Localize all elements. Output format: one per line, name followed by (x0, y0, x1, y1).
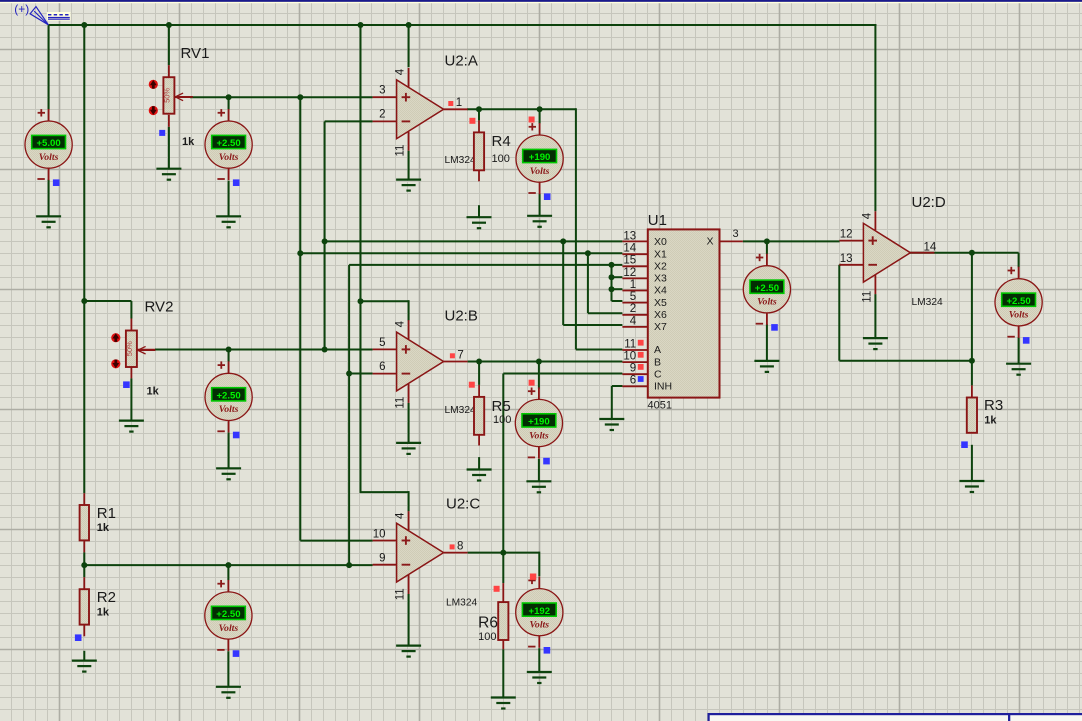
svg-text:6: 6 (630, 375, 636, 387)
svg-text:R1: R1 (97, 505, 116, 522)
wire R4 bottom ground stem (478, 169, 480, 217)
red square VM7 (530, 574, 536, 580)
svg-text:50%: 50% (125, 341, 134, 356)
U1 pin name labels inside (654, 236, 714, 393)
U2:C power pin stubs (4, 11) (408, 511, 410, 594)
voltmeter VM1 reading +5.00 (25, 109, 72, 186)
svg-text:+2.50: +2.50 (755, 283, 779, 294)
svg-text:100: 100 (492, 153, 510, 165)
svg-text:INH: INH (654, 381, 672, 393)
U2:A input pin stubs (373, 97, 397, 121)
svg-text:100: 100 (493, 414, 511, 426)
ground under VM3 (527, 216, 552, 227)
node junctions on divider node (81, 562, 352, 568)
svg-text:1k: 1k (97, 607, 110, 619)
svg-text:5: 5 (630, 291, 636, 303)
wire R6 bottom to ground (502, 637, 504, 697)
node junctions on RV1 wiper net (226, 94, 304, 256)
node junction dots on +5V rail (81, 22, 411, 28)
svg-text:B: B (654, 356, 661, 368)
svg-text:X2: X2 (654, 261, 667, 273)
RV2 wiper arrow (138, 346, 156, 354)
wire VM7 drop from output corner (538, 552, 540, 577)
RV2 decrement arrow button (111, 359, 120, 368)
voltmeter VM3 reading +190 (516, 123, 563, 200)
U2:B output pin stub (444, 361, 468, 363)
svg-text:3: 3 (733, 228, 739, 240)
wire 2.5V reference to X2 line (349, 264, 622, 266)
wire RV2 bottom to ground (130, 366, 132, 420)
svg-text:X4: X4 (654, 285, 667, 297)
svg-text:Volts: Volts (219, 152, 239, 163)
pin 8 red square U2:C (450, 544, 455, 549)
wire RV2 top connection (83, 301, 131, 319)
svg-text:Volts: Volts (529, 430, 549, 441)
wire U1 X output to U2:D pin12 (743, 240, 840, 242)
blue square R3 (961, 441, 968, 448)
ground under RV1 (156, 169, 181, 180)
wire U2:B pin11 to ground (408, 403, 410, 443)
voltmeter VM6 reading +2.50 (205, 580, 252, 657)
node U2:B pin4 branch junction (358, 298, 364, 304)
svg-text:14: 14 (924, 242, 937, 254)
RV2 increment arrow button (111, 333, 120, 342)
wire RV2 wiper net to U2:B pin5 (137, 349, 373, 351)
voltmeter VM5 reading +2.50 (205, 361, 252, 438)
red square R4 (469, 118, 475, 124)
svg-text:9: 9 (379, 553, 385, 565)
ground under VM9 (1006, 364, 1031, 375)
svg-text:11: 11 (395, 588, 407, 600)
wire R3 tap down (971, 361, 973, 398)
svg-text:Volts: Volts (219, 404, 239, 415)
voltmeter VM9 reading +2.50 (995, 267, 1042, 344)
wire 2.5V divider node line R1-R2 to U2:C pin9 (84, 564, 372, 566)
svg-text:11: 11 (395, 397, 407, 409)
svg-text:U2:B: U2:B (445, 308, 478, 325)
svg-text:50%: 50% (163, 88, 172, 103)
svg-text:+5.00: +5.00 (36, 138, 60, 149)
red square VM4 (529, 380, 535, 386)
red square VM3 (529, 117, 535, 123)
ground under VM5 (216, 468, 241, 479)
node junction U2:B pin6 (346, 371, 352, 377)
ground under VM4 (526, 481, 551, 492)
wire VM2 to ground (228, 181, 230, 217)
svg-text:1: 1 (456, 97, 462, 109)
wire R3 bottom to ground (971, 445, 973, 481)
svg-text:7: 7 (457, 349, 463, 361)
resistor R5 body (474, 397, 484, 435)
svg-text:LM324: LM324 (912, 297, 943, 308)
voltmeter VM8 reading +2.50 (743, 254, 790, 331)
node junction RV2 feed (81, 298, 87, 304)
wire U2:A pin11 to ground (408, 151, 410, 180)
svg-text:4: 4 (395, 68, 407, 75)
wire R4 tap from output node (478, 109, 480, 132)
U2:D output pin stub (910, 252, 934, 254)
svg-text:12: 12 (623, 267, 636, 279)
wire U2:A output down to U1 pin A (576, 108, 623, 349)
svg-text:X5: X5 (654, 297, 667, 309)
svg-text:1: 1 (630, 279, 636, 291)
svg-text:Volts: Volts (530, 166, 550, 177)
resistor R6 body (498, 602, 508, 640)
node junctions U2:D output net (969, 250, 975, 364)
bottom right popup window frames (709, 714, 1082, 721)
svg-text:+2.50: +2.50 (216, 609, 240, 620)
ground U2:B pin11 (396, 443, 421, 454)
wire VM7 to ground (538, 648, 540, 672)
U2:A power pin stubs (4, 11) (408, 68, 410, 151)
voltmeter VM7 reading +192 (516, 577, 563, 654)
svg-text:4051: 4051 (648, 400, 672, 412)
svg-text:R5: R5 (492, 398, 511, 415)
wire +5V rail to VM1 (48, 25, 50, 110)
wire RV1 wiper net to U2:A pin3 (174, 96, 372, 98)
wire U2:B output node to U1 pin B (468, 361, 623, 363)
svg-text:+2.50: +2.50 (1006, 296, 1030, 307)
svg-text:RV1: RV1 (181, 45, 210, 62)
wire rail drop x=84 to R1 and RV2 node (83, 25, 85, 493)
ground under R5 (467, 470, 492, 481)
pin number labels U2:C (373, 512, 464, 600)
U1 X output pin stub (720, 240, 743, 242)
svg-text:U2:A: U2:A (445, 53, 478, 70)
svg-text:X7: X7 (654, 321, 667, 333)
U2:D power pin stubs (4, 11) (874, 211, 876, 294)
svg-text:X: X (706, 236, 713, 248)
RV1 decrement arrow button (149, 106, 158, 115)
svg-text:U2:D: U2:D (912, 194, 946, 211)
wire VM8 to ground (766, 324, 768, 361)
svg-text:+190: +190 (528, 417, 550, 428)
svg-text:X0: X0 (654, 236, 667, 248)
voltmeter VM4 reading +190 (515, 387, 562, 464)
red square R5 (469, 382, 475, 388)
svg-text:2: 2 (630, 303, 636, 315)
wire VM1 to ground (48, 180, 50, 217)
ground under VM2 (216, 216, 241, 227)
ground under RV2 (119, 421, 144, 432)
ground U2:C pin11 (396, 646, 421, 657)
pin 7 red square U2:B (450, 353, 455, 358)
svg-text:1k: 1k (984, 415, 997, 427)
svg-text:Volts: Volts (757, 297, 777, 308)
hidden-text blue square RV2 (123, 381, 130, 388)
wire supply branch to U2:C pin4 (408, 491, 410, 511)
ground U2:D pin11 (863, 338, 888, 349)
U2:C output pin stub (444, 552, 468, 554)
ground under R4 (467, 217, 492, 228)
svg-text:12: 12 (840, 229, 853, 241)
wire R5 tap (478, 362, 480, 397)
op-amp U2:A triangle (397, 80, 444, 139)
svg-text:1k: 1k (97, 522, 110, 534)
op-amp U2:D triangle (863, 223, 910, 282)
svg-text:RV2: RV2 (145, 299, 174, 316)
svg-text:LM324: LM324 (446, 597, 477, 608)
svg-text:A: A (654, 344, 661, 356)
wire U2:A output node y=108 (467, 108, 576, 110)
wire U2:B pin6 vertical 2.5V net (349, 265, 373, 565)
node junctions on X0 net (322, 238, 567, 352)
wire U2:C output down to R6 (502, 553, 504, 603)
svg-text:Volts: Volts (39, 152, 59, 163)
svg-text:14: 14 (623, 243, 636, 255)
wire +5V top rail (49, 24, 877, 211)
svg-text:U1: U1 (648, 212, 667, 229)
wire VM4 to ground (538, 459, 540, 481)
U1 select pin marker squares (638, 340, 644, 382)
ground U2:A pin11 (396, 180, 421, 191)
resistor R3 body (967, 398, 977, 433)
wire RV1 wiper drop to VM2 (228, 97, 230, 109)
svg-text:4: 4 (395, 512, 407, 519)
svg-text:LM324: LM324 (445, 405, 476, 416)
svg-text:4: 4 (395, 320, 407, 327)
svg-text:4: 4 (630, 315, 637, 327)
svg-text:X6: X6 (654, 309, 667, 321)
ground under R2 (72, 661, 97, 672)
U2:C input pin stubs (373, 541, 397, 565)
wire autoroute dashed indicator (47, 12, 71, 21)
svg-text:8: 8 (457, 541, 463, 553)
svg-text:+190: +190 (529, 152, 551, 163)
resistor R2 body (80, 589, 89, 624)
U2:B power pin stubs (4, 11) (408, 320, 410, 403)
wire INH to ground stem (612, 386, 623, 419)
voltmeter VM2 reading +2.50 (205, 109, 252, 186)
pin number labels U2:A (379, 68, 462, 156)
wire RV1 wiper vertical x=300 to U2:C pin10 (300, 97, 372, 540)
svg-text:15: 15 (623, 255, 636, 267)
wire VM3 to ground (539, 194, 541, 216)
RV1 increment arrow button (149, 80, 158, 89)
wire X1 feed from RV1 net (299, 252, 622, 254)
hidden-text blue square RV1 (159, 130, 165, 136)
red square R6 (494, 586, 500, 592)
svg-text:Volts: Volts (1009, 310, 1029, 321)
multiplexer U1 4051 body (648, 229, 720, 397)
svg-text:+2.50: +2.50 (216, 138, 240, 149)
wire VM8 drop (766, 241, 768, 254)
svg-text:10: 10 (373, 528, 386, 540)
wire U2:C output node (468, 552, 540, 554)
node junction X output (764, 238, 770, 244)
svg-text:5: 5 (379, 337, 385, 349)
node junction U2:C output (500, 550, 506, 556)
svg-text:11: 11 (861, 291, 873, 303)
pin number labels U2:D (840, 212, 937, 302)
wire rail drop x=360 opamp supply (360, 25, 409, 492)
wire R2 bottom ground stem (83, 624, 85, 660)
wire X0 branch down to X7 (563, 241, 622, 325)
svg-text:R6: R6 (478, 615, 498, 632)
wire supply branch to U2:B pin4 (408, 300, 410, 320)
potentiometer RV2 body (125, 331, 137, 368)
pin number labels U2:B (379, 320, 464, 408)
svg-text:Volts: Volts (219, 623, 239, 634)
svg-text:Volts: Volts (529, 620, 549, 631)
svg-text:U2:C: U2:C (446, 496, 480, 513)
node junctions on U2:B output node (476, 359, 542, 365)
svg-text:10: 10 (623, 351, 636, 363)
op-amp U2:C triangle (397, 523, 444, 582)
svg-text:X3: X3 (654, 273, 667, 285)
svg-text:9: 9 (630, 363, 636, 375)
wire placement cursor icon (30, 7, 48, 25)
blue square R2 (75, 634, 82, 641)
wire divider drop to VM6 (227, 565, 229, 580)
wire U2:D pin11 to ground (874, 294, 876, 338)
svg-text:100: 100 (478, 631, 496, 643)
node junctions on U2:A output node (476, 106, 543, 112)
svg-text:3: 3 (379, 85, 385, 97)
wire VM3 tap from output node (539, 109, 541, 123)
U2:B input pin stubs (373, 349, 397, 373)
svg-text:R4: R4 (492, 133, 511, 150)
potentiometer RV1 body (163, 77, 175, 114)
top window title bar strip (0, 0, 1082, 2)
svg-text:11: 11 (624, 338, 636, 350)
wire X0 line to U1 (325, 240, 623, 242)
wire U2:C output up to U1 pin C (503, 374, 622, 553)
svg-text:11: 11 (395, 145, 407, 157)
RV1 wiper arrow (175, 93, 193, 101)
svg-text:13: 13 (840, 253, 853, 265)
wire U2:D output node (887, 253, 1018, 268)
node junctions on RV2 wiper net (226, 347, 232, 353)
svg-text:2: 2 (379, 109, 385, 121)
wire RV2 wiper drop to VM5 (228, 350, 230, 362)
pin 1 red square U2:A (448, 101, 453, 106)
ground under VM8 (754, 361, 779, 372)
wire VM6 to ground (227, 651, 229, 687)
U1 left pin stubs (622, 241, 647, 386)
svg-text:+2.50: +2.50 (216, 391, 240, 402)
node junction X1 branch (585, 250, 591, 256)
svg-text:(+): (+) (14, 2, 29, 16)
svg-text:X1: X1 (654, 248, 667, 260)
potentiometer RV2 (130, 319, 132, 331)
U2:D input pin stubs (839, 241, 863, 265)
node junctions X2 chain (609, 262, 615, 292)
wire U2:A pin2 feedback net (325, 121, 373, 349)
wire VM9 to ground (1018, 337, 1020, 363)
wire R5 bottom ground stem (478, 434, 480, 470)
op-amp U2:B triangle (397, 332, 444, 391)
svg-text:1k: 1k (147, 386, 160, 398)
ground under R3 (959, 481, 984, 492)
ground under VM7 (527, 672, 552, 683)
ground under R6 (491, 698, 516, 709)
wire X2 branch chain to X3 X4 X5 (612, 265, 623, 301)
ground under VM1 (36, 216, 61, 227)
potentiometer RV1 (168, 65, 170, 77)
wire VM5 to ground (228, 433, 230, 469)
svg-text:LM324: LM324 (445, 155, 476, 166)
wire rail to RV1 top (168, 25, 170, 65)
svg-text:1k: 1k (182, 136, 195, 148)
svg-text:6: 6 (379, 361, 385, 373)
resistor R1 body (80, 505, 89, 540)
wire RV1 bottom to ground (168, 115, 170, 169)
wire U2:D feedback loop to pin13 (839, 253, 972, 361)
ground INH (599, 419, 624, 430)
resistor R4 body (474, 132, 484, 170)
svg-text:13: 13 (623, 230, 636, 242)
wire X1 branch down to X6 (588, 253, 623, 313)
wire VM4 tap (538, 362, 540, 389)
U2:A output pin stub (444, 108, 468, 110)
svg-text:C: C (654, 368, 662, 380)
wire rail to U2:A pin4 (408, 25, 410, 67)
svg-text:R3: R3 (984, 397, 1003, 414)
svg-text:4: 4 (861, 212, 873, 219)
wire R1 pin stubs and middle link (83, 493, 85, 589)
ground under VM6 (216, 687, 241, 698)
U1 pin number labels (623, 228, 738, 387)
svg-text:+192: +192 (528, 606, 550, 617)
wire U2:C pin11 to ground (408, 594, 410, 646)
svg-text:R2: R2 (97, 589, 116, 606)
